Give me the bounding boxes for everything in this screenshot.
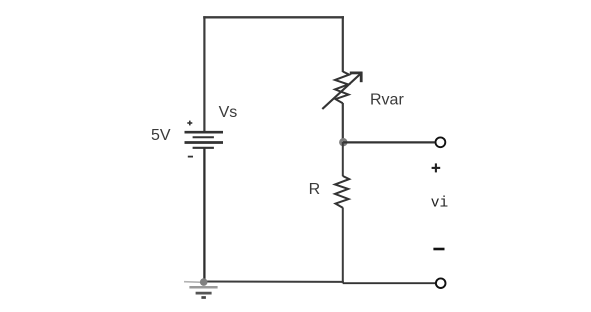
wire top horizontal xyxy=(203,16,344,18)
node junction dot xyxy=(339,138,347,146)
wire Rvar to node xyxy=(342,103,344,143)
ground bars xyxy=(189,287,217,297)
wire left vertical bottom (battery bottom lead) xyxy=(203,149,205,282)
battery minus mark xyxy=(188,156,193,158)
variable resistor Rvar zigzag xyxy=(335,72,349,104)
variable resistor Rvar arrow xyxy=(322,72,362,109)
ground junction dot xyxy=(200,278,208,286)
wire bottom right horizontal xyxy=(343,282,435,284)
svg-text:5V: 5V xyxy=(151,127,171,144)
svg-text:vi: vi xyxy=(431,195,448,211)
wire right vertical top (Rvar top lead) xyxy=(342,16,344,72)
svg-text:Rvar: Rvar xyxy=(370,91,404,108)
battery V1 plates xyxy=(185,132,224,148)
wire node to top terminal xyxy=(343,141,435,143)
label minus (output) xyxy=(433,248,444,251)
wire left vertical top (battery top lead) xyxy=(203,16,205,131)
resistor R zigzag xyxy=(335,176,349,208)
terminal bottom circle xyxy=(436,278,446,288)
ground stub left gray xyxy=(184,281,203,284)
wire bottom left horizontal xyxy=(204,281,344,283)
label plus (output) xyxy=(432,163,441,172)
wire R to bottom xyxy=(342,208,344,284)
svg-text:R: R xyxy=(309,181,321,198)
wire node to resistor R xyxy=(342,142,344,176)
terminal top circle xyxy=(436,137,446,147)
svg-text:Vs: Vs xyxy=(219,104,238,121)
battery plus mark xyxy=(187,121,192,126)
